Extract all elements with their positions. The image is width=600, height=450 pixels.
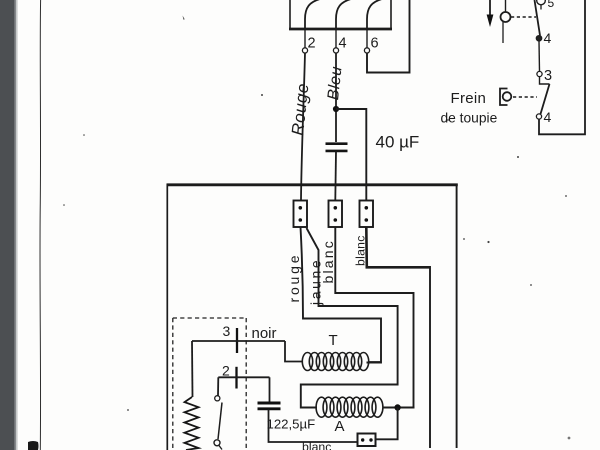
- switch blade upper: [535, 0, 541, 36]
- resistor R1: [185, 397, 199, 450]
- svg-text:Frein: Frein: [451, 90, 487, 107]
- breaker box Q1 (3-pole switch, cut at top): [289, 0, 392, 29]
- junction node (coil A / block / blanc): [394, 404, 400, 410]
- capacitor C1 40uF: [326, 144, 348, 151]
- svg-text:noir: noir: [252, 325, 277, 342]
- terminal circle 4 lower: [536, 114, 541, 119]
- wire capacitor bottom to block X4: [269, 410, 358, 443]
- svg-text:3: 3: [544, 68, 552, 84]
- terminal circle 3: [537, 71, 542, 76]
- wire Rouge (terminal 2 to block): [301, 53, 305, 200]
- terminal block X2 (bleu/blanc): [329, 201, 343, 228]
- terminal block X1 (rouge): [294, 201, 308, 228]
- junction node (bleu / 40uF branch): [333, 106, 339, 112]
- svg-text:blanc: blanc: [354, 235, 368, 266]
- switch S1 upper contact: [215, 396, 220, 401]
- terminal circle 6: [364, 48, 369, 53]
- svg-text:Bleu: Bleu: [325, 65, 345, 101]
- coil A right lead: [383, 407, 415, 409]
- wire blanc (block X3) down right side: [366, 227, 430, 267]
- svg-text:2: 2: [222, 363, 230, 379]
- dashed link brake to blade: [513, 96, 537, 98]
- wire from contact 2: [218, 376, 269, 378]
- switch blade lower: [541, 84, 550, 114]
- wire 4 to 3: [538, 41, 541, 72]
- ink smudge bottom-left: [28, 441, 39, 450]
- branch wire to third block: [336, 109, 366, 200]
- svg-text:A: A: [335, 418, 345, 435]
- wire rouge (motor side) to coil T right: [301, 227, 382, 363]
- capacitor C2 122,5uF: [258, 403, 281, 409]
- switch S1 lower contact: [214, 440, 220, 446]
- wire below 3 with step: [540, 77, 550, 85]
- arrow down: [489, 0, 491, 16]
- scanner left gray margin bar: [0, 0, 18, 450]
- coil symbol circle: [505, 0, 507, 12]
- svg-text:122,5µF: 122,5µF: [267, 417, 316, 432]
- svg-text:40 µF: 40 µF: [376, 133, 420, 152]
- svg-text:3: 3: [223, 323, 231, 339]
- wire below capacitor to block: [334, 152, 337, 201]
- svg-text:T: T: [329, 332, 338, 349]
- svg-text:blanc: blanc: [320, 239, 336, 283]
- svg-text:6: 6: [371, 36, 379, 52]
- stub below coil: [502, 22, 504, 43]
- terminal stub 2: [304, 29, 306, 48]
- scan specks: [63, 16, 570, 440]
- wire contact3 right down to coil T: [285, 341, 303, 362]
- svg-text:4: 4: [339, 36, 347, 52]
- wire noir left down to resistor: [191, 341, 194, 397]
- breaker pole arc 2: [336, 0, 351, 29]
- wire block X4 to junction: [376, 408, 398, 440]
- terminal circle 5 (cut): [537, 0, 546, 5]
- svg-text:4: 4: [544, 109, 552, 125]
- wire to switch S1: [217, 377, 219, 395]
- dashed switch enclosure: [173, 318, 246, 450]
- dashed link coil to blade: [511, 16, 536, 18]
- wire to capacitor C2: [269, 377, 271, 401]
- svg-text:blanc: blanc: [302, 440, 331, 450]
- breaker pole arc 1: [305, 0, 320, 29]
- terminal stub 6: [366, 29, 368, 48]
- terminal circle 2: [302, 48, 307, 53]
- svg-text:2: 2: [308, 36, 316, 52]
- wire from terminal 6 up and over: [367, 0, 410, 73]
- wire noir: [192, 340, 285, 342]
- terminal block X3 (blanc): [360, 201, 374, 228]
- svg-text:Rouge: Rouge: [288, 82, 312, 136]
- brake symbol (bracket + circle): [500, 89, 508, 106]
- terminal circle 4 upper: [536, 36, 541, 41]
- wire blanc (block X2) to coil A right: [335, 227, 413, 407]
- svg-text:de toupie: de toupie: [441, 111, 498, 126]
- breaker pole arc 3: [367, 0, 382, 29]
- wire jaune to coil A left: [301, 228, 398, 408]
- return wire right and up: [539, 0, 585, 134]
- svg-text:4: 4: [544, 30, 552, 46]
- terminal stub 4: [335, 29, 337, 48]
- svg-text:rouge: rouge: [286, 253, 302, 303]
- switch S1 blade: [218, 403, 222, 440]
- coil T right lead: [369, 361, 382, 363]
- svg-text:5: 5: [548, 0, 555, 10]
- page edge line: [39, 0, 42, 450]
- terminal circle 4: [333, 48, 338, 53]
- wire Bleu (terminal 4 down to capacitor): [335, 53, 337, 142]
- terminal block X4 (blanc bottom): [358, 434, 376, 447]
